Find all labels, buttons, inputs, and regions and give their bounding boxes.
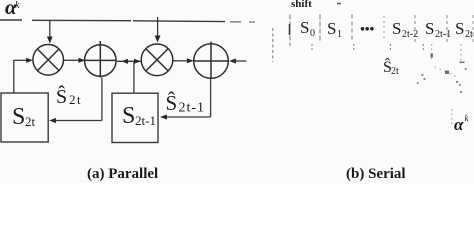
adder A1 (circle with plus) — [85, 41, 117, 78]
ellipsis between cells — [361, 27, 374, 31]
label S2t-1-hat on feedback wire — [166, 91, 206, 116]
register cell label S0 — [300, 18, 315, 39]
wire: right-hand input into A2 with arrowhead — [229, 58, 246, 63]
svg-text:shift: shift — [291, 0, 312, 10]
register cell label S2t-2 — [392, 19, 418, 40]
divider stubs below register row — [312, 44, 423, 51]
svg-text:α: α — [454, 115, 464, 134]
svg-text:2t-2: 2t-2 — [402, 29, 418, 40]
svg-text:S: S — [12, 104, 25, 130]
svg-text:S: S — [300, 18, 309, 37]
svg-text:Ŝ: Ŝ — [166, 91, 178, 115]
svg-text:t: t — [77, 92, 81, 107]
svg-text:2t: 2t — [25, 114, 36, 129]
register S2t (box) — [1, 93, 48, 142]
alpha^k input label (top-left) — [5, 0, 20, 19]
svg-text:S: S — [392, 19, 401, 38]
wire: A2 output down and left into register S2t-1 (S2t-1-hat) — [160, 79, 211, 120]
register cell label S2t — [455, 19, 473, 40]
serial shift register cell dividers — [273, 15, 473, 63]
multiplier M2 (circle with X) — [141, 44, 173, 76]
svg-text:2t-1: 2t-1 — [179, 101, 206, 116]
svg-text:2t: 2t — [465, 29, 473, 40]
wire: register S2t output up and right into M1 — [14, 58, 33, 93]
svg-text:S: S — [327, 19, 336, 38]
multiplier M1 (circle with X) — [33, 45, 64, 76]
faded wire: drop from S2t cell (dotted remnant) — [432, 44, 461, 63]
wire: junction segment between A1 and M2 (arrows both ways) — [117, 59, 141, 64]
wire: register S2t-1 output up to junction — [133, 61, 135, 93]
wire: M1 output to A1 with arrowhead — [64, 58, 86, 63]
svg-text:k: k — [15, 0, 20, 11]
shift arrow remnant dash — [337, 3, 341, 5]
faded multiplier remnant dots — [417, 54, 467, 94]
register cell label S2t-1 — [425, 19, 451, 40]
register cell label S1 — [327, 19, 342, 40]
svg-text:2t-1: 2t-1 — [135, 113, 156, 128]
adder A2 (circle with plus) — [194, 42, 229, 80]
wire: A1 output down and left into register S2t (S2t-hat) — [49, 78, 102, 124]
wire: bus drop to multiplier M2 with arrowhead — [155, 17, 161, 43]
svg-text:(b) Serial: (b) Serial — [346, 166, 406, 182]
alpha^k input label (serial figure) — [454, 113, 470, 134]
svg-text:2t: 2t — [391, 66, 399, 77]
svg-text:1: 1 — [337, 29, 342, 40]
label S2t-hat on feedback wire — [56, 84, 81, 108]
svg-text:S: S — [122, 103, 135, 129]
svg-text:2: 2 — [69, 92, 76, 107]
faded wire: alpha^k input (dotted remnant) — [451, 109, 453, 124]
svg-text:S: S — [425, 19, 434, 38]
svg-text:2t-1: 2t-1 — [435, 29, 451, 40]
label S2t-hat (serial figure) — [383, 57, 399, 77]
register S2t-1 (box) — [112, 93, 158, 142]
wire: bus drop to multiplier M1 with arrowhead — [47, 21, 53, 44]
svg-text:0: 0 — [310, 28, 315, 39]
faded diagonal wire remnant — [435, 67, 459, 78]
wire: alpha^k horizontal bus — [0, 20, 255, 22]
svg-text:(a) Parallel: (a) Parallel — [87, 166, 158, 182]
svg-text:Ŝ: Ŝ — [56, 84, 67, 108]
wire: M2 output to A2 with arrowhead — [173, 58, 194, 63]
svg-text:S: S — [455, 19, 464, 38]
